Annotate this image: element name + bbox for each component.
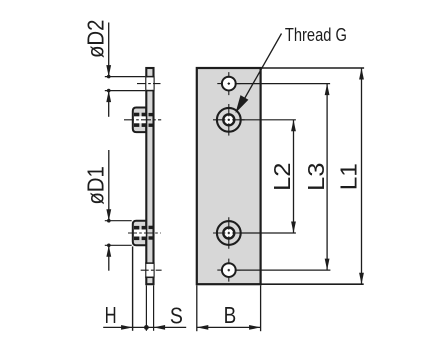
extension line from bottom thread hole to L2 [241,232,296,234]
thread detail inside bottom boss [134,226,153,240]
small hole top, front view [217,72,240,95]
extension line from plate bottom edge to L1 [261,283,364,285]
svg-text:S: S [170,302,183,328]
small hole bottom, front view [217,259,240,282]
plate, front view [197,68,261,284]
leader arrowhead [236,95,249,113]
dimension D1: dimension line with outside arrows [106,150,111,271]
centerline top hole, side view [137,83,161,85]
dimension D1: extension lines [105,220,132,222]
dimension L2 line with arrows [291,120,296,233]
leader line Thread G [240,34,282,108]
svg-text:B: B [224,302,237,328]
boss (thread bushing) top, side view [133,108,147,133]
svg-text:L2: L2 [269,163,295,192]
extension line from plate top edge to L1 [261,67,365,69]
dimension H/S: extension lines [132,246,134,330]
extension line from top thread hole to L2 [241,119,296,121]
thread hole bottom, front view [213,217,245,249]
svg-text:H: H [105,302,117,328]
extension line from top small hole to L3 [236,83,330,85]
thread detail inside top boss [134,113,153,127]
through hole top, side view [145,77,154,91]
centerline bottom boss, side view [128,232,161,234]
svg-text:L3: L3 [303,163,329,192]
dimension B: extension lines [196,285,198,331]
svg-text:øD2: øD2 [82,20,108,59]
thread hole top, front view [213,104,245,136]
dimension L1 line with arrows [359,68,364,284]
extension line from bottom small hole to L3 [236,269,330,271]
dimension B: dimension line with arrows [197,325,261,330]
centerline bottom hole, side view [141,269,162,271]
svg-text:L1: L1 [335,163,361,190]
dimension L3 line with arrows [325,84,330,271]
dimension D2: extension lines [105,76,145,78]
plate, side view [146,68,153,284]
centerline top boss, side view [124,119,161,121]
svg-text:øD1: øD1 [83,166,109,205]
svg-text:Thread G: Thread G [285,25,347,45]
dimension H/S: dimension line, arrows and dot [103,325,186,330]
dimension D2: dimension line with outside arrows [106,23,111,117]
boss (thread bushing) bottom, side view [133,221,147,246]
through hole bottom, side view [145,263,154,277]
